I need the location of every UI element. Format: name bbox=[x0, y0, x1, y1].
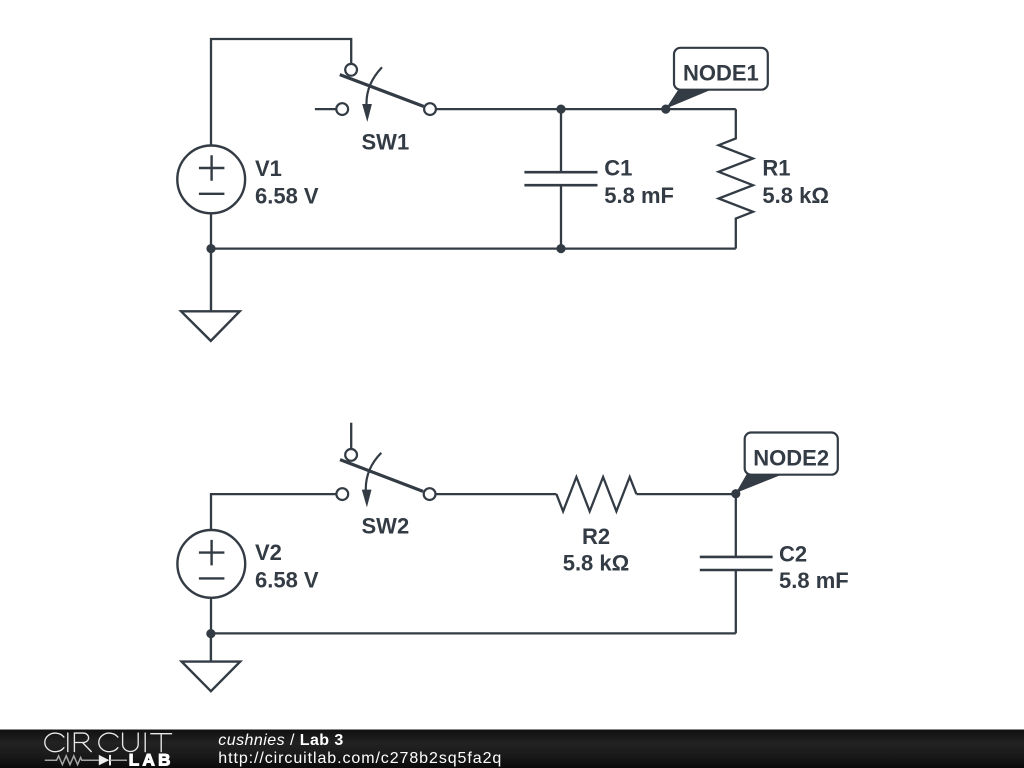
bottom wire of circuit 1 bbox=[211, 247, 736, 249]
svg-text:LAB: LAB bbox=[129, 750, 174, 768]
svg-text:cushnies / Lab 3: cushnies / Lab 3 bbox=[218, 732, 343, 749]
capacitor C2 bbox=[700, 494, 849, 633]
junction dot V2 bottom bbox=[206, 629, 215, 638]
node NODE1 junction dot bbox=[661, 105, 670, 114]
svg-text:NODE2: NODE2 bbox=[753, 445, 829, 470]
logo squiggle resistor-diode bbox=[45, 755, 127, 766]
resistor R2 bbox=[556, 477, 636, 576]
wire V1 top to SW1 top terminal bbox=[211, 39, 351, 145]
voltage source V2 bbox=[177, 530, 319, 633]
wire V2 top to SW2 left terminal bbox=[211, 494, 336, 529]
svg-text:5.8 mF: 5.8 mF bbox=[779, 568, 849, 593]
svg-text:http://circuitlab.com/c278b2sq: http://circuitlab.com/c278b2sq5fa2q bbox=[218, 750, 502, 767]
svg-text:5.8 mF: 5.8 mF bbox=[604, 183, 674, 208]
svg-text:V2: V2 bbox=[255, 540, 282, 565]
bottom wire of circuit 2 bbox=[211, 632, 736, 634]
wire R2 to NODE2 bbox=[636, 493, 735, 495]
svg-text:SW1: SW1 bbox=[362, 130, 410, 155]
ground of circuit 1 bbox=[181, 249, 240, 341]
resistor R1 bbox=[719, 109, 829, 249]
switch SW1 bbox=[315, 64, 436, 155]
wire SW1 to R1 corner bbox=[436, 108, 736, 110]
node label NODE1 bbox=[666, 48, 768, 109]
svg-text:C2: C2 bbox=[779, 542, 807, 567]
node NODE2 junction dot bbox=[731, 489, 740, 498]
svg-text:NODE1: NODE1 bbox=[683, 61, 759, 86]
svg-text:R1: R1 bbox=[762, 156, 790, 181]
svg-text:6.58 V: 6.58 V bbox=[255, 567, 319, 592]
ground of circuit 2 bbox=[182, 634, 241, 692]
svg-text:5.8 kΩ: 5.8 kΩ bbox=[563, 551, 630, 576]
wire SW2 to R2 bbox=[436, 493, 557, 495]
svg-text:C1: C1 bbox=[604, 156, 632, 181]
voltage source V1 bbox=[177, 146, 319, 249]
svg-text:R2: R2 bbox=[582, 524, 610, 549]
svg-text:V1: V1 bbox=[255, 156, 282, 181]
node label NODE2 bbox=[736, 433, 838, 494]
switch SW2 bbox=[336, 423, 435, 539]
svg-text:6.58 V: 6.58 V bbox=[255, 183, 319, 208]
capacitor C1 bbox=[524, 109, 674, 249]
junction dot at C1 bottom bbox=[556, 244, 565, 253]
svg-text:SW2: SW2 bbox=[362, 514, 410, 539]
footer bar bbox=[0, 730, 1024, 768]
junction dot at C1 top bbox=[556, 105, 565, 114]
logo text CIRCUIT (drawn strokes) bbox=[45, 733, 172, 752]
junction dot V1 bottom bbox=[206, 244, 215, 253]
svg-text:5.8 kΩ: 5.8 kΩ bbox=[762, 183, 829, 208]
